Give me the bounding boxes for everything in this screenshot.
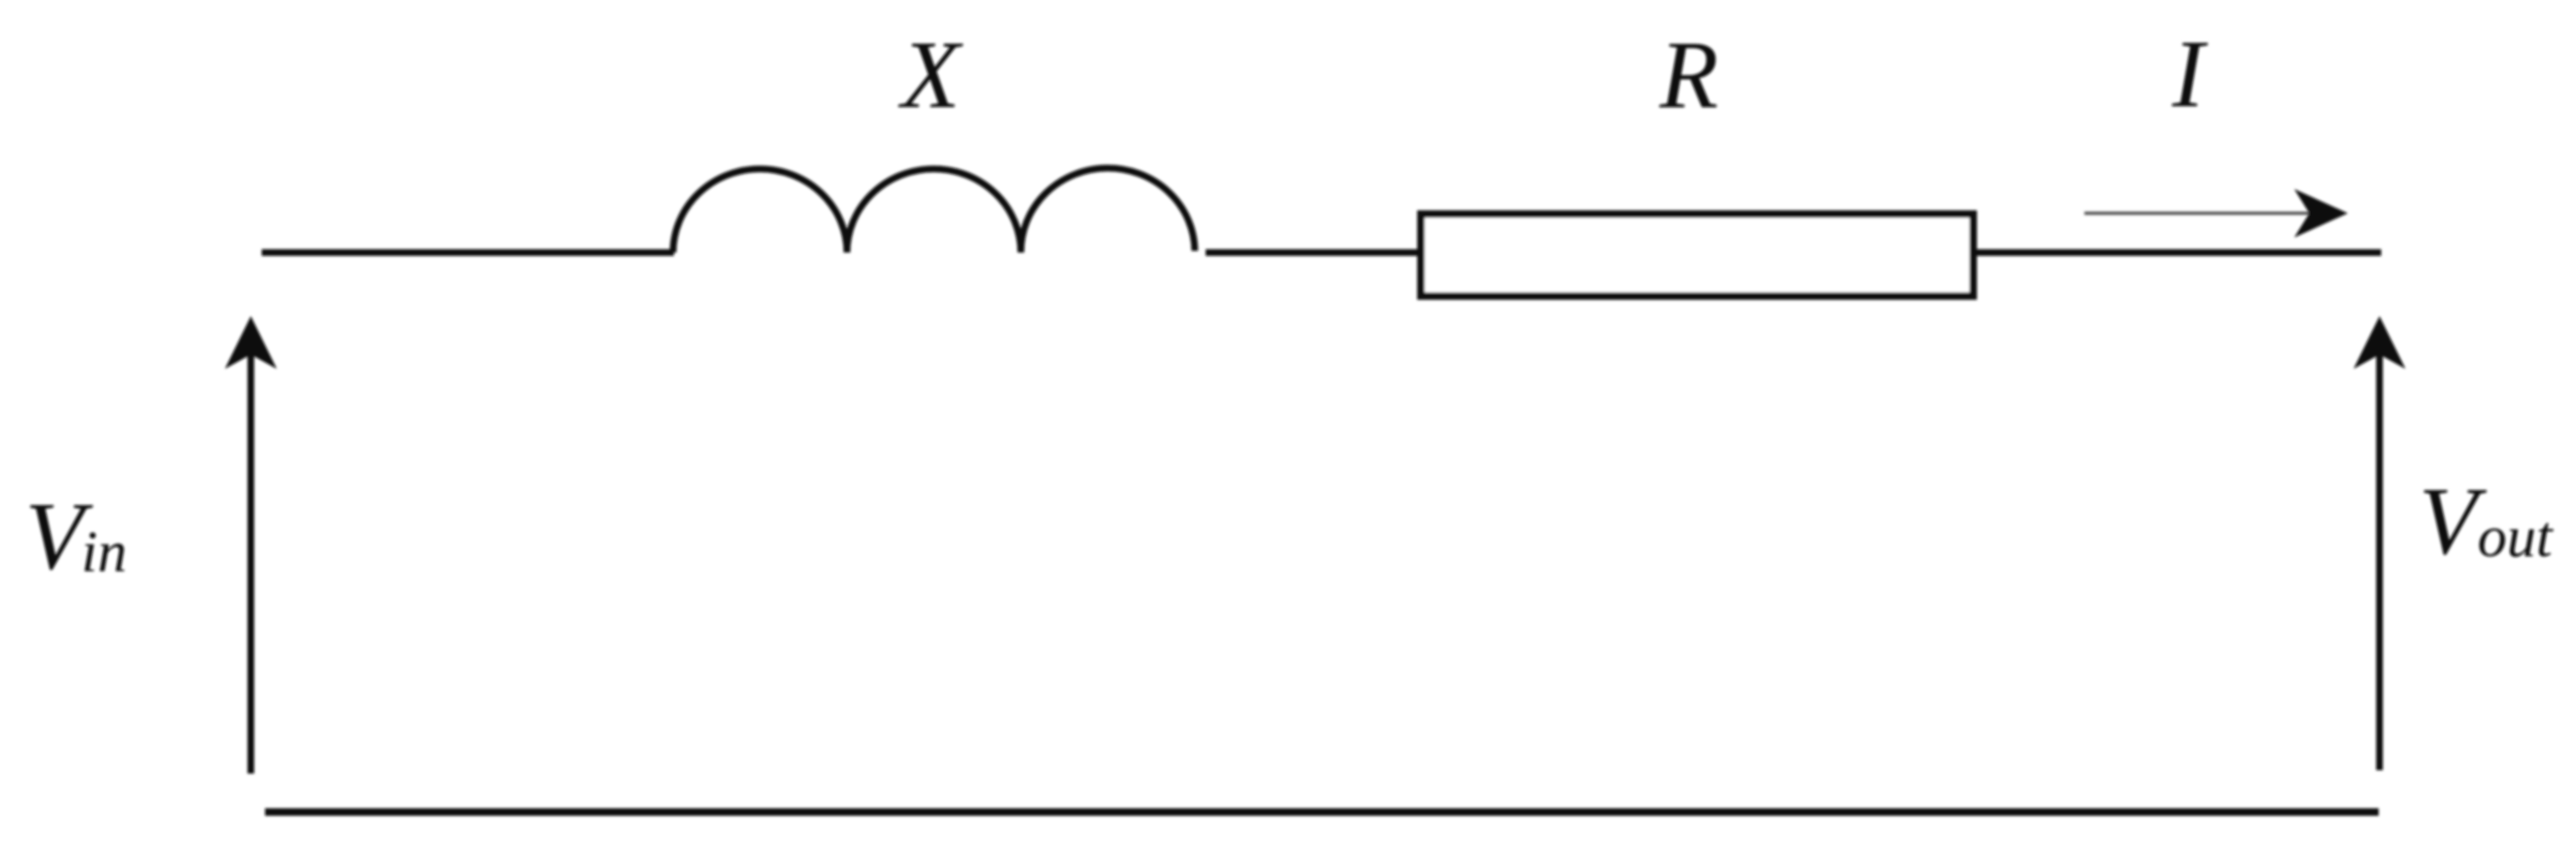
current arrow I shaft [2084, 212, 2320, 215]
svg-text:Vout: Vout [2419, 468, 2553, 575]
svg-text:Vin: Vin [25, 483, 127, 590]
wire resistor to output [1973, 249, 2381, 256]
resistor R [1421, 214, 1974, 296]
svg-text:X: X [898, 22, 963, 128]
Vout arrow shaft [2376, 350, 2383, 770]
Vout arrow head [2354, 316, 2405, 369]
Vin arrow shaft [247, 350, 254, 774]
wire top-left segment [262, 249, 674, 256]
wire between inductor and resistor [1206, 249, 1421, 256]
svg-text:I: I [2171, 21, 2208, 127]
inductor X [673, 168, 1195, 253]
svg-text:R: R [1659, 22, 1718, 128]
bottom wire [265, 809, 2379, 816]
current arrow I head [2294, 189, 2348, 238]
Vin arrow head [225, 316, 277, 369]
